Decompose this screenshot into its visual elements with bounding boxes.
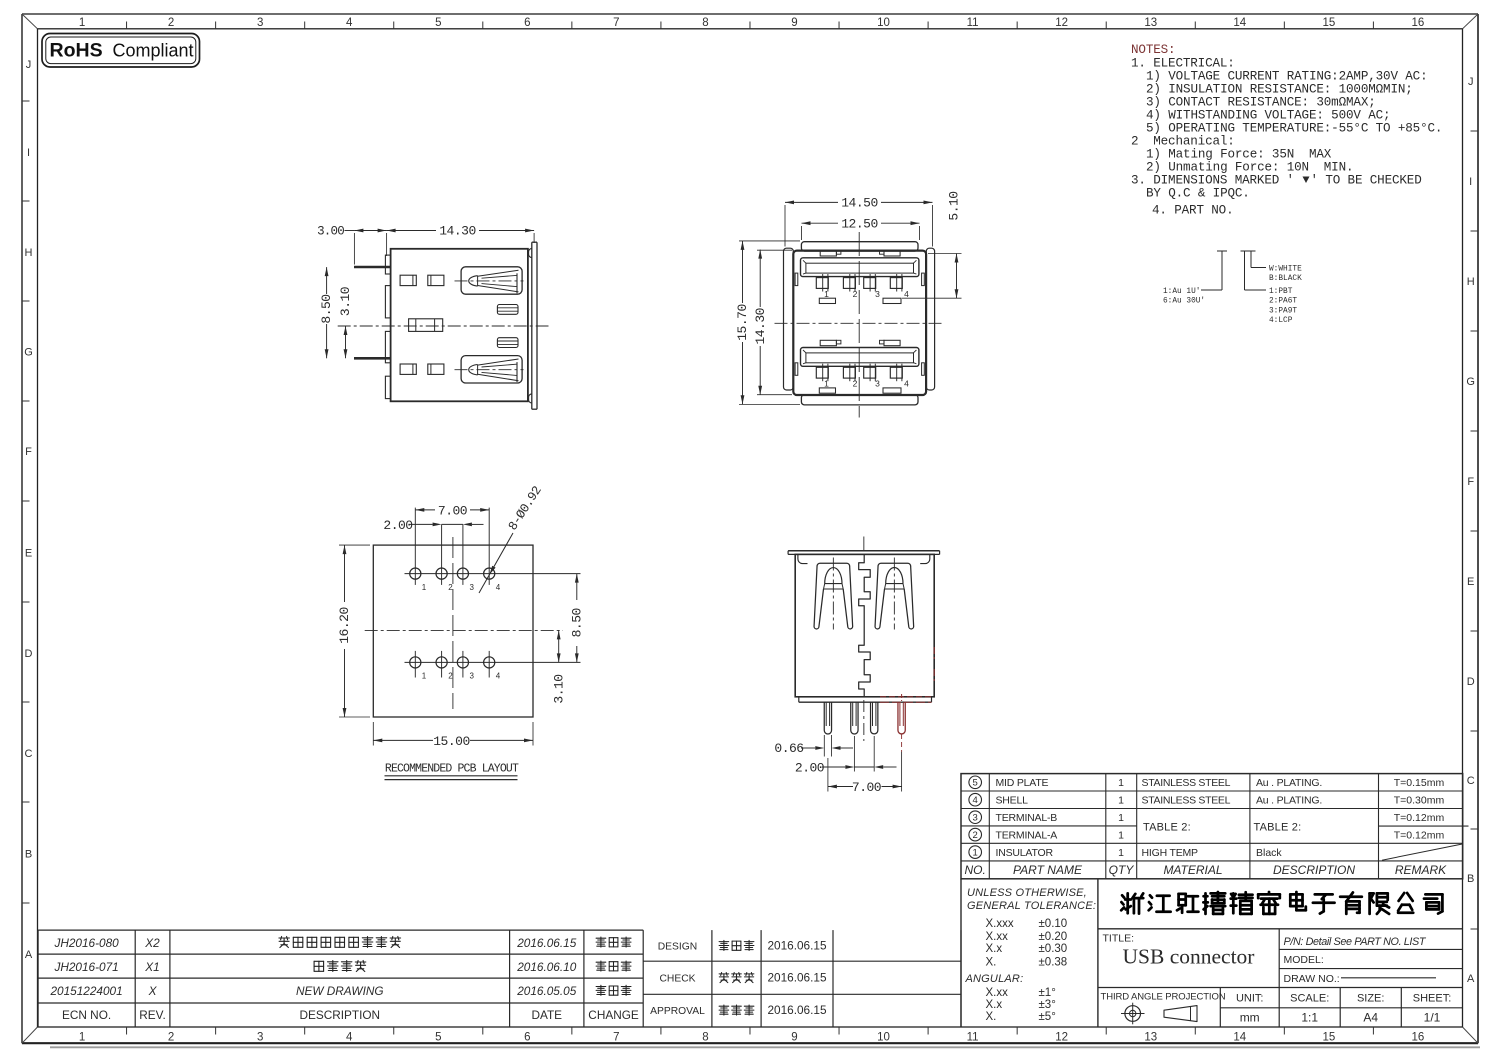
svg-text:4) WITHSTANDING VOLTAGE: 500V: 4) WITHSTANDING VOLTAGE: 500V AC; bbox=[1146, 109, 1390, 123]
svg-text:1/1: 1/1 bbox=[1424, 1011, 1441, 1025]
view D left latch spring bbox=[814, 563, 853, 626]
svg-text:8-Ø0.92: 8-Ø0.92 bbox=[506, 484, 545, 533]
svg-text:TABLE 2:: TABLE 2: bbox=[1254, 822, 1302, 834]
view B top port side slots bbox=[795, 273, 798, 286]
svg-text:13: 13 bbox=[1144, 17, 1157, 29]
svg-text:3. DIMENSIONS MARKED ': 3. DIMENSIONS MARKED ' bbox=[1131, 174, 1294, 188]
svg-text:JH2016-071: JH2016-071 bbox=[53, 960, 118, 974]
svg-text:1:Au 1U': 1:Au 1U' bbox=[1163, 288, 1200, 296]
svg-text:11: 11 bbox=[967, 1032, 979, 1044]
svg-text:16: 16 bbox=[1412, 1032, 1425, 1044]
dimension 2.00 legs bbox=[853, 736, 855, 772]
svg-text:2016.06.10: 2016.06.10 bbox=[516, 960, 576, 974]
svg-text:D: D bbox=[1467, 676, 1475, 688]
frame column ticks top bbox=[126, 22, 128, 29]
notes check-mark triangle bbox=[1303, 177, 1310, 184]
svg-text:X2: X2 bbox=[144, 936, 160, 950]
svg-text:UNLESS OTHERWISE,: UNLESS OTHERWISE, bbox=[967, 887, 1087, 899]
svg-text:I: I bbox=[1469, 176, 1472, 188]
approval block grid bbox=[643, 960, 961, 962]
svg-text:1: 1 bbox=[79, 1032, 85, 1044]
svg-text:14: 14 bbox=[1233, 1032, 1246, 1044]
svg-text:4. PART NO.: 4. PART NO. bbox=[1152, 204, 1233, 218]
view D centerline above bbox=[863, 537, 865, 553]
svg-text:±0.38: ±0.38 bbox=[1039, 956, 1068, 968]
svg-text:DESCRIPTION: DESCRIPTION bbox=[299, 1008, 380, 1022]
svg-text:SHELL: SHELL bbox=[996, 795, 1029, 807]
svg-text:8.50: 8.50 bbox=[319, 294, 334, 323]
view A center through-slot bbox=[409, 319, 443, 332]
svg-text:X.: X. bbox=[986, 1011, 997, 1023]
svg-text:±1°: ±1° bbox=[1039, 987, 1056, 999]
svg-text:1:1: 1:1 bbox=[1301, 1011, 1318, 1025]
dimension 3.10 pcb bbox=[558, 630, 560, 662]
parts table grid bbox=[961, 774, 1463, 879]
view A datum line bottom bbox=[354, 357, 391, 360]
frame outer border bbox=[22, 13, 1478, 15]
view B bottom port top notches bbox=[820, 340, 836, 345]
view A contact slot B2 bbox=[428, 364, 444, 374]
svg-text:8.50: 8.50 bbox=[569, 608, 584, 637]
svg-text:NEW DRAWING: NEW DRAWING bbox=[296, 984, 384, 998]
svg-text:7.00: 7.00 bbox=[438, 503, 467, 518]
svg-text:3.00: 3.00 bbox=[317, 224, 344, 238]
svg-text:7: 7 bbox=[613, 17, 619, 29]
svg-text:8: 8 bbox=[702, 1032, 708, 1044]
svg-text:mm: mm bbox=[1240, 1011, 1260, 1025]
svg-text:T=0.15mm: T=0.15mm bbox=[1394, 777, 1445, 789]
frame row ticks right bbox=[1471, 130, 1479, 132]
projection cone symbol bbox=[1164, 1006, 1197, 1022]
svg-text:2016.06.15: 2016.06.15 bbox=[767, 971, 826, 985]
view C horizontal centerline bbox=[365, 629, 563, 631]
svg-text:2: 2 bbox=[973, 830, 978, 841]
view A datum line top bbox=[354, 266, 391, 269]
svg-text:HIGH TEMP: HIGH TEMP bbox=[1142, 847, 1199, 859]
svg-text:E: E bbox=[25, 548, 32, 560]
svg-text:3: 3 bbox=[470, 672, 475, 681]
svg-text:16: 16 bbox=[1412, 17, 1425, 29]
svg-text:T=0.12mm: T=0.12mm bbox=[1394, 829, 1445, 841]
revision table change names bbox=[596, 937, 606, 947]
view D top flange left hook bbox=[798, 554, 808, 563]
revision table descriptions bbox=[279, 937, 290, 948]
svg-text:THIRD ANGLE PROJECTION: THIRD ANGLE PROJECTION bbox=[1101, 991, 1226, 1002]
svg-text:ECN NO.: ECN NO. bbox=[62, 1008, 111, 1022]
svg-text:2: 2 bbox=[168, 17, 174, 29]
view D base plate red tint bbox=[880, 696, 932, 698]
svg-text:STAINLESS STEEL: STAINLESS STEEL bbox=[1142, 777, 1231, 789]
dimension 15.00 bbox=[373, 739, 433, 741]
svg-text:A4: A4 bbox=[1363, 1011, 1378, 1025]
RoHS stamp outer box bbox=[42, 34, 200, 68]
svg-text:X.x: X.x bbox=[986, 999, 1003, 1011]
svg-text:5: 5 bbox=[435, 1032, 441, 1044]
svg-text:G: G bbox=[24, 347, 33, 359]
dimension 16.20 bbox=[344, 545, 346, 602]
dimension 14.30 front bbox=[759, 250, 761, 307]
svg-text:Compliant: Compliant bbox=[113, 40, 194, 60]
RoHS stamp inner box bbox=[46, 37, 196, 64]
view A centerline bbox=[338, 325, 549, 327]
svg-text:12.50: 12.50 bbox=[841, 217, 878, 232]
svg-text:X.xx: X.xx bbox=[986, 931, 1009, 943]
svg-text:2:PA6T: 2:PA6T bbox=[1269, 298, 1297, 306]
svg-text:SHEET:: SHEET: bbox=[1413, 993, 1452, 1005]
parts table slash bbox=[1382, 844, 1462, 860]
view A vent slot bottom bbox=[497, 338, 518, 348]
view B top port contacts bbox=[816, 278, 828, 289]
revision table grid bbox=[38, 929, 643, 931]
svg-text:±5°: ±5° bbox=[1039, 1011, 1056, 1023]
svg-text:' TO BE CHECKED: ' TO BE CHECKED bbox=[1311, 174, 1422, 188]
view D base plate bbox=[798, 697, 800, 702]
dimension 15.70 bbox=[742, 241, 744, 303]
svg-text:NO.: NO. bbox=[965, 863, 986, 877]
svg-text:1: 1 bbox=[824, 379, 829, 389]
svg-text:X.: X. bbox=[986, 956, 997, 968]
view D top flange right hook bbox=[920, 554, 930, 563]
view C hole axis line top bbox=[405, 573, 581, 575]
dimension 7.00 legs bbox=[827, 758, 829, 792]
svg-text:4: 4 bbox=[973, 795, 978, 806]
svg-text:±3°: ±3° bbox=[1039, 999, 1056, 1011]
svg-text:12: 12 bbox=[1055, 1032, 1068, 1044]
view D centerline below bbox=[863, 700, 865, 741]
svg-text:1) Mating Force: 35N MAX: 1) Mating Force: 35N MAX bbox=[1146, 148, 1332, 162]
svg-text:F: F bbox=[25, 446, 32, 458]
view D center seam bbox=[859, 554, 871, 696]
view A vent slot top bbox=[497, 305, 518, 315]
view C pin holes top row bbox=[410, 568, 421, 579]
svg-text:D: D bbox=[25, 648, 33, 660]
svg-text:1: 1 bbox=[1118, 847, 1124, 859]
view B bottom port tongue bbox=[801, 348, 919, 367]
view C vertical centerline bbox=[452, 537, 454, 709]
svg-text:2 Mechanical:: 2 Mechanical: bbox=[1131, 135, 1235, 149]
svg-text:ANGULAR:: ANGULAR: bbox=[965, 973, 1024, 985]
view B bottom lip bbox=[801, 395, 918, 405]
svg-text:REV.: REV. bbox=[139, 1008, 165, 1022]
svg-text:2.00: 2.00 bbox=[383, 518, 412, 533]
view A spring contact bottom bbox=[461, 356, 522, 383]
view C hole axis line bottom bbox=[405, 661, 581, 663]
view B top port tongue bbox=[801, 258, 919, 277]
svg-text:4: 4 bbox=[904, 379, 909, 389]
svg-text:TERMINAL-A: TERMINAL-A bbox=[996, 829, 1058, 841]
view A mid-plate bottom hook bbox=[529, 394, 532, 403]
svg-text:6: 6 bbox=[524, 1032, 530, 1044]
approval block names bbox=[719, 940, 729, 950]
svg-text:4: 4 bbox=[904, 289, 909, 299]
svg-text:H: H bbox=[1467, 276, 1475, 288]
svg-text:9: 9 bbox=[791, 17, 797, 29]
svg-text:2) INSULATION RESISTANCE: 1000: 2) INSULATION RESISTANCE: 1000MΩMIN; bbox=[1146, 83, 1413, 97]
svg-text:E: E bbox=[1467, 576, 1474, 588]
svg-text:I: I bbox=[27, 147, 30, 159]
svg-text:1: 1 bbox=[1118, 812, 1124, 824]
svg-text:4: 4 bbox=[346, 17, 353, 29]
svg-text:1: 1 bbox=[824, 289, 829, 299]
svg-text:3: 3 bbox=[470, 583, 475, 592]
svg-text:GENERAL TOLERANCE:: GENERAL TOLERANCE: bbox=[967, 900, 1096, 912]
svg-text:BY Q.C & IPQC.: BY Q.C & IPQC. bbox=[1146, 187, 1250, 201]
svg-text:C: C bbox=[25, 748, 33, 760]
svg-text:DRAW NO.:: DRAW NO.: bbox=[1284, 973, 1340, 985]
svg-text:T=0.12mm: T=0.12mm bbox=[1394, 812, 1445, 824]
svg-text:Black: Black bbox=[1256, 847, 1282, 859]
svg-text:X.x: X.x bbox=[986, 943, 1003, 955]
view A mid-plate right bbox=[531, 242, 533, 409]
svg-text:J: J bbox=[26, 59, 32, 71]
svg-text:13: 13 bbox=[1144, 1032, 1157, 1044]
svg-text:4: 4 bbox=[496, 672, 501, 681]
svg-text:B: B bbox=[25, 849, 32, 861]
svg-text:PART NAME: PART NAME bbox=[1013, 863, 1083, 877]
view D top flange bar bbox=[788, 550, 940, 552]
legend bracket 2 bbox=[1241, 250, 1249, 252]
view A contact slot A1 bbox=[400, 275, 416, 285]
view B bottom port side slots bbox=[795, 363, 798, 376]
svg-text:DESCRIPTION: DESCRIPTION bbox=[1273, 863, 1355, 877]
svg-text:T=0.30mm: T=0.30mm bbox=[1394, 795, 1445, 807]
svg-text:2: 2 bbox=[168, 1032, 174, 1044]
svg-text:3: 3 bbox=[973, 813, 978, 824]
dimension 8-O0.92 leader bbox=[479, 533, 513, 593]
legend bracket 1 bbox=[1217, 250, 1227, 252]
svg-text:USB connector: USB connector bbox=[1123, 945, 1255, 969]
svg-text:INSULATOR: INSULATOR bbox=[996, 847, 1054, 859]
svg-text:6: 6 bbox=[524, 17, 530, 29]
view A spring contact top bbox=[461, 267, 522, 294]
frame bottom shadow bbox=[50, 1046, 1480, 1048]
view B left wing bbox=[784, 248, 794, 390]
svg-text:QTY: QTY bbox=[1109, 863, 1135, 877]
company name hanzi bbox=[1121, 893, 1143, 913]
svg-text:15: 15 bbox=[1322, 1032, 1335, 1044]
svg-text:7: 7 bbox=[613, 1032, 619, 1044]
svg-text:3: 3 bbox=[875, 379, 880, 389]
view C hole verticals bbox=[414, 508, 416, 585]
svg-text:TABLE 2:: TABLE 2: bbox=[1143, 822, 1191, 834]
svg-text:UNIT:: UNIT: bbox=[1236, 993, 1264, 1005]
svg-text:2016.06.15: 2016.06.15 bbox=[767, 939, 826, 953]
svg-text:2) Unmating Force: 10N MIN.: 2) Unmating Force: 10N MIN. bbox=[1146, 161, 1353, 175]
svg-text:1:PBT: 1:PBT bbox=[1269, 288, 1293, 296]
svg-text:F: F bbox=[1467, 476, 1474, 488]
view B top lip bbox=[801, 242, 918, 251]
svg-text:X1: X1 bbox=[144, 960, 159, 974]
svg-text:4: 4 bbox=[496, 583, 501, 592]
view B horizontal centerline bbox=[775, 322, 945, 324]
legend bracket 3 bbox=[1248, 250, 1256, 252]
dimension 8.50 pcb bbox=[576, 574, 578, 600]
dimension 3.10 bbox=[345, 326, 347, 358]
view B vertical centerline bbox=[858, 232, 860, 418]
view A contact slot A2 bbox=[428, 275, 444, 285]
svg-text:2016.06.15: 2016.06.15 bbox=[516, 936, 576, 950]
svg-text:A: A bbox=[25, 949, 33, 961]
svg-text:10: 10 bbox=[877, 1032, 890, 1044]
svg-text:H: H bbox=[25, 247, 33, 259]
svg-text:Au . PLATING.: Au . PLATING. bbox=[1256, 777, 1322, 789]
parts table item numbers bbox=[969, 776, 982, 789]
view D body outline bbox=[795, 554, 934, 696]
svg-text:14.30: 14.30 bbox=[753, 308, 768, 345]
svg-text:SCALE:: SCALE: bbox=[1290, 993, 1329, 1005]
svg-text:2: 2 bbox=[853, 379, 858, 389]
svg-text:MODEL:: MODEL: bbox=[1284, 954, 1324, 966]
svg-text:2016.05.05: 2016.05.05 bbox=[516, 984, 576, 998]
svg-text:X.xxx: X.xxx bbox=[986, 918, 1014, 930]
svg-text:C: C bbox=[1467, 775, 1475, 787]
view B bottom port contacts bbox=[816, 367, 828, 378]
svg-text:CHECK: CHECK bbox=[659, 974, 695, 985]
view A left mounting tabs bbox=[385, 255, 390, 274]
svg-text:3:PA9T: 3:PA9T bbox=[1269, 307, 1297, 315]
svg-text:14.50: 14.50 bbox=[841, 196, 878, 211]
view B right wing bbox=[926, 248, 934, 390]
svg-text:STAINLESS STEEL: STAINLESS STEEL bbox=[1142, 795, 1231, 807]
svg-text:J: J bbox=[1468, 76, 1474, 88]
svg-text:B:BLACK: B:BLACK bbox=[1269, 275, 1302, 283]
svg-text:4: 4 bbox=[346, 1032, 353, 1044]
svg-text:3) CONTACT RESISTANCE: 30mΩMAX: 3) CONTACT RESISTANCE: 30mΩMAX; bbox=[1146, 96, 1376, 110]
svg-text:4:LCP: 4:LCP bbox=[1269, 317, 1293, 325]
svg-text:G: G bbox=[1466, 376, 1475, 388]
svg-text:1: 1 bbox=[79, 17, 85, 29]
svg-text:0.66: 0.66 bbox=[774, 741, 803, 756]
view B shell outline bbox=[793, 251, 926, 395]
view B bottom port bottom bumps bbox=[819, 388, 835, 393]
svg-text:1: 1 bbox=[1118, 795, 1124, 807]
svg-text:12: 12 bbox=[1055, 17, 1068, 29]
view A contact slot B1 bbox=[400, 364, 416, 374]
svg-text:3: 3 bbox=[257, 1032, 263, 1044]
svg-text:NOTES:: NOTES: bbox=[1131, 43, 1175, 57]
svg-text:5) OPERATING TEMPERATURE:-55°C: 5) OPERATING TEMPERATURE:-55°C TO +85°C. bbox=[1146, 122, 1442, 136]
svg-text:11: 11 bbox=[967, 17, 979, 29]
svg-text:B: B bbox=[1467, 873, 1474, 885]
view B top port top notches bbox=[820, 251, 836, 256]
svg-text:APPROVAL: APPROVAL bbox=[650, 1006, 705, 1017]
svg-text:10: 10 bbox=[877, 17, 890, 29]
svg-text:X: X bbox=[148, 984, 158, 998]
svg-text:1. ELECTRICAL:: 1. ELECTRICAL: bbox=[1131, 57, 1235, 71]
view A mid-plate top hook bbox=[529, 249, 532, 258]
svg-text:1) VOLTAGE CURRENT RATING:2AMP: 1) VOLTAGE CURRENT RATING:2AMP,30V AC: bbox=[1146, 70, 1428, 84]
svg-text:15.70: 15.70 bbox=[735, 304, 750, 341]
svg-text:2016.06.15: 2016.06.15 bbox=[767, 1003, 826, 1017]
svg-text:DATE: DATE bbox=[531, 1008, 562, 1022]
svg-text:A: A bbox=[1467, 973, 1475, 985]
svg-text:JH2016-080: JH2016-080 bbox=[53, 936, 119, 950]
view B top port bottom bumps bbox=[819, 298, 835, 303]
svg-text:2.00: 2.00 bbox=[795, 761, 824, 776]
svg-text:RoHS: RoHS bbox=[50, 40, 103, 62]
svg-text:Au . PLATING.: Au . PLATING. bbox=[1256, 795, 1322, 807]
svg-text:7.00: 7.00 bbox=[852, 780, 881, 795]
view D red terminal leg bbox=[898, 702, 905, 734]
title block grid bbox=[960, 879, 962, 1027]
svg-text:W:WHITE: W:WHITE bbox=[1269, 265, 1302, 273]
svg-text:9: 9 bbox=[791, 1032, 797, 1044]
dimension 0.66 bbox=[823, 735, 825, 757]
svg-text:6:Au 30U': 6:Au 30U' bbox=[1163, 298, 1205, 306]
svg-text:TERMINAL-B: TERMINAL-B bbox=[996, 812, 1058, 824]
svg-text:5.10: 5.10 bbox=[946, 191, 961, 220]
svg-text:P/N: Detail See PART NO. LIST: P/N: Detail See PART NO. LIST bbox=[1284, 936, 1427, 948]
svg-text:±0.30: ±0.30 bbox=[1039, 943, 1068, 955]
svg-text:1: 1 bbox=[973, 848, 978, 859]
svg-text:5: 5 bbox=[973, 778, 978, 789]
view D red edge marks bbox=[933, 647, 935, 660]
svg-text:±0.20: ±0.20 bbox=[1039, 931, 1068, 943]
svg-text:1: 1 bbox=[422, 583, 427, 592]
view C pin holes bottom row bbox=[410, 657, 421, 668]
frame corner bevels bbox=[22, 14, 38, 29]
frame row ticks left bbox=[22, 100, 30, 102]
svg-text:1: 1 bbox=[1118, 777, 1124, 789]
svg-text:TITLE:: TITLE: bbox=[1103, 933, 1135, 945]
svg-text:DESIGN: DESIGN bbox=[658, 942, 697, 953]
svg-text:8: 8 bbox=[702, 17, 708, 29]
svg-text:3.10: 3.10 bbox=[551, 674, 566, 703]
svg-text:1: 1 bbox=[422, 672, 427, 681]
svg-text:3: 3 bbox=[875, 289, 880, 299]
svg-text:20151224001: 20151224001 bbox=[50, 984, 123, 998]
svg-text:REMARK: REMARK bbox=[1395, 863, 1447, 877]
svg-text:15: 15 bbox=[1322, 17, 1335, 29]
svg-text:MATERIAL: MATERIAL bbox=[1163, 863, 1222, 877]
svg-text:1: 1 bbox=[1118, 829, 1124, 841]
view D solder legs bbox=[824, 702, 831, 734]
view A body outline bbox=[391, 249, 528, 401]
view D right latch spring bbox=[875, 563, 914, 626]
svg-text:CHANGE: CHANGE bbox=[588, 1008, 639, 1022]
svg-text:2: 2 bbox=[853, 289, 858, 299]
frame column ticks bottom bbox=[126, 1027, 128, 1035]
svg-text:16.20: 16.20 bbox=[337, 607, 352, 644]
svg-text:X.xx: X.xx bbox=[986, 987, 1009, 999]
dimension 8.50 bbox=[326, 267, 328, 294]
svg-text:14.30: 14.30 bbox=[439, 224, 476, 239]
view C pcb outline bbox=[373, 545, 533, 717]
svg-text:5: 5 bbox=[435, 17, 441, 29]
svg-text:SIZE:: SIZE: bbox=[1357, 993, 1385, 1005]
svg-text:MID PLATE: MID PLATE bbox=[996, 777, 1049, 789]
svg-text:3: 3 bbox=[257, 17, 263, 29]
svg-text:14: 14 bbox=[1233, 17, 1246, 29]
svg-text:±0.10: ±0.10 bbox=[1039, 918, 1068, 930]
svg-text:3.10: 3.10 bbox=[338, 287, 353, 316]
svg-text:RECOMMENDED PCB LAYOUT: RECOMMENDED PCB LAYOUT bbox=[385, 763, 519, 776]
svg-text:15.00: 15.00 bbox=[433, 734, 470, 749]
